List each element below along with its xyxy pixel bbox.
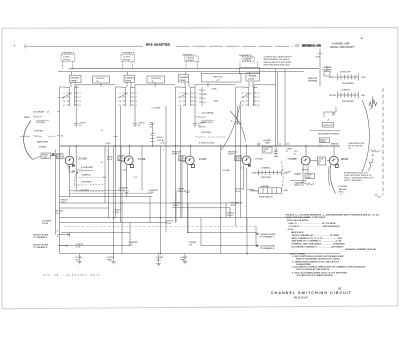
svg-text:+ CLA: + CLA	[284, 143, 290, 146]
svg-text:CONTROL: CONTROL	[341, 89, 351, 91]
label relay plus	[236, 201, 243, 204]
tube V2 lower wires	[121, 146, 129, 197]
svg-text:LABEL THE FOLLOWING CONDITI: LABEL THE FOLLOWING CONDITIONS	[286, 216, 326, 219]
svg-text:A TRACKER: A TRACKER	[81, 166, 93, 169]
svg-text:+CAP: +CAP	[105, 142, 111, 145]
svg-text:PULSE: PULSE	[42, 223, 49, 225]
svg-text:PRIME: PRIME	[71, 80, 78, 82]
svg-text:+V 2: +V 2	[295, 184, 299, 186]
label counter C4.32B	[119, 187, 129, 191]
svg-text:+1%: +1%	[61, 98, 65, 100]
bottom dashed bus y226	[64, 225, 257, 227]
svg-text:3-4: 3-4	[179, 100, 182, 103]
svg-text:BUS ADAPTER: BUS ADAPTER	[146, 43, 170, 47]
svg-text:RELAY: RELAY	[157, 136, 164, 139]
clamp tube junction labels	[263, 139, 272, 144]
module 1 inner rails	[76, 130, 142, 254]
svg-text:FIG. 48 — ELECTRIC UNIT: FIG. 48 — ELECTRIC UNIT	[43, 273, 101, 277]
tube V3 channel C	[186, 146, 195, 165]
module 4 left boundary wires	[236, 87, 245, 226]
input cable curve	[24, 121, 33, 160]
bottom bus y196	[60, 196, 153, 198]
svg-text:RAM: RAM	[214, 100, 219, 103]
svg-text:2-2: 2-2	[134, 97, 137, 99]
svg-text:+40 V: +40 V	[156, 259, 162, 262]
tube V1 cathode capacitor	[67, 165, 75, 172]
bottom bus y208	[60, 207, 231, 209]
svg-text:+V B+: +V B+	[160, 143, 166, 145]
svg-text:CHOPPER: CHOPPER	[201, 132, 211, 134]
svg-text:CLEAR: CLEAR	[248, 78, 255, 81]
main horizontal bus	[60, 145, 340, 146]
channel C relay dashed box	[182, 53, 199, 68]
cathode resistor drop 2	[107, 254, 116, 264]
svg-text:AND PRESSING THE JACKS: AND PRESSING THE JACKS	[264, 58, 290, 61]
tube socket pins module 1	[63, 87, 81, 107]
clamp feed component right of tabulator	[274, 143, 293, 157]
svg-text:COIL B+: COIL B+	[157, 140, 165, 142]
cathode resistor drop 1	[75, 254, 83, 264]
channel D upper junction box	[240, 68, 260, 74]
top bus line left segment	[25, 44, 143, 49]
svg-text:RAM: RAM	[203, 93, 207, 96]
svg-text:ACCURATE: ACCURATE	[33, 111, 45, 114]
left signal input cluster	[20, 111, 56, 149]
center coupling network C-R	[148, 123, 165, 146]
svg-text:CHANNEL D: CHANNEL D	[239, 54, 252, 57]
svg-text:1-2: 1-2	[78, 93, 81, 95]
svg-text:DA.63B: DA.63B	[79, 157, 88, 160]
spring squiggle	[369, 97, 377, 111]
svg-text:3-2: 3-2	[257, 101, 260, 103]
B+ tap label 2 left rail	[47, 112, 60, 114]
tube V3 lower wires	[182, 158, 190, 232]
svg-text:4-1: 4-1	[242, 104, 245, 107]
svg-text:AMPLIFIER: AMPLIFIER	[37, 141, 48, 144]
label crush drum	[178, 188, 186, 192]
svg-text:ROTOR: ROTOR	[329, 95, 336, 97]
left auxiliary rail	[56, 150, 60, 238]
chan selector switch note	[348, 142, 365, 150]
channel clutch label lower left right-section	[294, 181, 304, 186]
bottom verticals module1	[70, 166, 131, 254]
svg-text:WITH CALCULATED+: WITH CALCULATED+	[287, 219, 310, 222]
svg-text:CH. B: CH. B	[55, 213, 61, 215]
svg-text:ACCURATE+: ACCURATE+	[202, 112, 215, 115]
svg-text:T-9: T-9	[240, 168, 243, 170]
svg-text:+CAP’T: +CAP’T	[148, 123, 156, 126]
module 4 right long rail	[284, 69, 286, 146]
title subcode	[294, 296, 309, 299]
after-march note block	[344, 171, 374, 182]
telephone switch strip	[329, 89, 365, 103]
grid bias box tube 1	[57, 154, 64, 160]
svg-text:DRUM W: DRUM W	[178, 191, 186, 193]
svg-text:SAMPLE DY: SAMPLE DY	[201, 121, 213, 124]
svg-text:CLUTCH: CLUTCH	[96, 78, 104, 80]
svg-text:CLIPPER: CLIPPER	[34, 131, 43, 133]
svg-text:DITTO +: DITTO +	[199, 127, 208, 129]
cathode resistor drop 4	[180, 254, 188, 264]
svg-text:CHANNEL: CHANNEL	[70, 76, 80, 79]
svg-text:4-2: 4-2	[257, 104, 260, 107]
svg-text:POWERS+ ONLY AVAILABLE ....: POWERS+ ONLY AVAILABLE .................…	[292, 242, 346, 245]
module 2 left boundary wires	[114, 87, 122, 223]
V6 output cable curve	[328, 165, 335, 194]
channel clear box 4	[246, 73, 260, 81]
svg-text:+CAP B: +CAP B	[79, 121, 87, 124]
svg-text:BYPASS: BYPASS	[243, 59, 251, 62]
top bus line right segment	[176, 45, 293, 47]
svg-text:TRIPLE CHANNEL AT .........: TRIPLE CHANNEL AT ......................…	[292, 234, 340, 237]
svg-text:C-1 R: C-1 R	[76, 246, 81, 248]
svg-text:4-1: 4-1	[63, 104, 66, 107]
wire box2 to pins	[127, 72, 155, 87]
bottom bus y193	[70, 192, 152, 194]
svg-text:TERM: TERM	[320, 142, 325, 144]
svg-text:ANNOUNCE: ANNOUNCE	[291, 231, 304, 234]
clamp tap label	[151, 107, 161, 110]
svg-text:1-1: 1-1	[242, 93, 245, 95]
sheet number 28	[338, 286, 341, 290]
svg-text:TUBE: TUBE	[265, 143, 271, 145]
tabulator box on bus	[257, 143, 272, 153]
svg-text:COUNT: COUNT	[123, 57, 131, 59]
svg-text:C2.32: C2.32	[149, 192, 154, 194]
label channel tag	[173, 202, 183, 207]
svg-text:+1 CLAMP: +1 CLAMP	[151, 107, 161, 110]
svg-text:TAG W: TAG W	[173, 204, 179, 207]
selector feed resistor	[370, 150, 381, 157]
coupling capacitor module 2	[133, 85, 176, 127]
label clutch RL3x	[235, 188, 243, 192]
svg-text:+CAP B: +CAP B	[138, 121, 146, 124]
svg-text:UNIT+ POWER: UNIT+ POWER	[290, 253, 305, 255]
svg-text:CHANNEL: CHANNEL	[248, 75, 258, 78]
svg-text:+SW: +SW	[284, 190, 288, 192]
svg-text:3-4: 3-4	[242, 100, 245, 103]
channel D relay dashed box	[239, 54, 258, 68]
svg-text:B+: B+	[318, 163, 320, 165]
svg-text:COUNT: COUNT	[63, 57, 71, 59]
svg-text:TO CHANNEL A: TO CHANNEL A	[33, 236, 48, 239]
svg-text:SPEED B: SPEED B	[172, 153, 180, 155]
tube V4 lower wires	[240, 165, 247, 232]
svg-text:TERMINAL: TERMINAL	[308, 80, 319, 83]
label counter C2.32	[149, 190, 159, 194]
tube socket pins module 3	[179, 87, 197, 107]
svg-text:DE31B: DE31B	[331, 143, 338, 145]
svg-text:3-4: 3-4	[63, 100, 66, 103]
svg-text:SIGNAL AMPLIFIER’T: SIGNAL AMPLIFIER’T	[330, 46, 355, 49]
svg-text:SWITCH: SWITCH	[329, 77, 337, 79]
inset dashed arc	[281, 162, 283, 191]
svg-text:2-2: 2-2	[257, 97, 260, 99]
label rotor RL W	[231, 203, 238, 207]
svg-text:FOR LOCATION AT THE SWITCH: FOR LOCATION AT THE SWITCH	[296, 268, 330, 271]
svg-text:CH. TR: CH. TR	[227, 215, 234, 217]
svg-text:SIGNAL: SIGNAL	[39, 146, 47, 149]
svg-text:3-4: 3-4	[119, 100, 122, 103]
svg-text:1-1: 1-1	[119, 93, 122, 95]
tube V1 channel A	[63, 146, 74, 165]
svg-text:CONT: CONT	[42, 157, 48, 159]
svg-text:SWITCHED AMPLIFIER JACK: SWITCHED AMPLIFIER JACK	[264, 63, 291, 66]
channel amp signal amplifier label	[330, 43, 355, 49]
svg-text:UNLESS +++ VOLTAGE READINGS: UNLESS +++ VOLTAGE READINGS +++ ARE MEAS…	[286, 213, 380, 216]
tube V3 cathode square	[191, 165, 194, 168]
label clutch ch tr	[227, 212, 235, 216]
svg-text:BYPASS: BYPASS	[63, 58, 71, 61]
junction dots bottom	[113, 202, 248, 254]
svg-text:CH.342: CH.342	[255, 158, 263, 161]
tube V5 selector A	[301, 146, 310, 165]
svg-text:+SW: +SW	[361, 95, 365, 97]
svg-text:4 BUS SWITCH: 4 BUS SWITCH	[259, 195, 273, 198]
svg-text:1.5 V: 1.5 V	[133, 177, 138, 179]
svg-text:+ VOLT: + VOLT	[286, 229, 294, 231]
svg-text:CHANNEL CURRENT SPECIAL: CHANNEL CURRENT SPECIAL	[345, 248, 377, 251]
svg-text:+SWITCH: +SWITCH	[252, 173, 261, 175]
label counter C2R	[129, 242, 139, 246]
tube V4 cathode square	[248, 164, 251, 167]
channel prime box 2	[124, 75, 135, 82]
svg-text:CHANNEL: CHANNEL	[260, 185, 270, 188]
svg-text:+VAL,-C+ ....................: +VAL,-C+ ...............................…	[288, 222, 336, 225]
svg-text:PRIME: PRIME	[125, 80, 132, 82]
svg-text:A POS-OFF: A POS-OFF	[340, 70, 351, 73]
bus tap labels	[105, 142, 166, 152]
svg-text:CHANNEL A: CHANNEL A	[62, 51, 75, 54]
wire box1 to pins	[71, 72, 101, 87]
telegraph control label	[310, 131, 340, 136]
sweep curve from channel D to tube 4	[221, 101, 246, 150]
right column rail from bus adapter	[316, 49, 322, 66]
switch term box	[319, 138, 330, 144]
svg-text:F-14 B, ET-4 DE+: F-14 B, ET-4 DE+	[199, 141, 216, 144]
upper bus wire 2	[58, 71, 304, 73]
switch wiper diagonals	[63, 93, 251, 98]
right dashed boundary	[382, 88, 384, 195]
svg-text:4-2: 4-2	[194, 104, 197, 107]
svg-text:RELAY B+: RELAY B+	[214, 76, 224, 79]
svg-text:3-2: 3-2	[78, 101, 81, 103]
channel A relay dashed box	[61, 51, 75, 68]
svg-text:RELAY: RELAY	[235, 156, 241, 159]
svg-text:1-1: 1-1	[63, 93, 66, 95]
svg-text:3-4: 3-4	[203, 97, 206, 100]
inset side labels	[286, 171, 300, 186]
svg-text:ADJUST: ADJUST	[228, 152, 236, 155]
tube V2 channel B	[125, 146, 134, 165]
channel prime box 3	[179, 75, 190, 83]
label rotor ch B	[55, 210, 63, 214]
small junction box right column	[320, 65, 330, 86]
tube socket pins module 4	[242, 87, 260, 107]
signal pulses channel B arrow	[33, 243, 68, 249]
svg-text:1-2: 1-2	[134, 93, 137, 95]
svg-text:TO CHANNEL D: TO CHANNEL D	[260, 247, 275, 250]
svg-text:CHANNEL: CHANNEL	[179, 76, 189, 79]
svg-text:1.6.34Z+: 1.6.34Z+	[223, 169, 232, 172]
svg-text:TELEGRAPH CONTROL: TELEGRAPH CONTROL	[318, 132, 340, 135]
svg-text:+CL W: +CL W	[166, 223, 172, 225]
module 3 left boundary wires	[176, 87, 182, 223]
svg-text:SWITCH CENTERED LEVER AT I: SWITCH CENTERED LEVER AT ITS CABLE	[296, 258, 340, 261]
svg-text:SAMPLE: SAMPLE	[82, 173, 91, 176]
svg-text:CHANNEL C: CHANNEL C	[182, 53, 195, 56]
channel prime box 1	[70, 75, 82, 82]
svg-text:AND WIRE OF 1 CHANNEL’S .: AND WIRE OF 1 CHANNEL’S ................…	[292, 240, 343, 243]
wire box4 to pins	[249, 72, 253, 87]
bottom bus y232	[61, 231, 256, 233]
junction wires right column	[324, 107, 336, 122]
right curved cable	[362, 100, 369, 172]
svg-text:+E+: +E+	[263, 151, 266, 153]
svg-text:1-1: 1-1	[179, 93, 182, 95]
svg-text:TELEPHONE: TELEPHONE	[342, 101, 354, 103]
relay B+ wide box	[202, 74, 242, 83]
1.5V tap label	[133, 177, 138, 179]
svg-text:SUPPORT: SUPPORT	[324, 125, 334, 127]
module 4 bus switch inset box	[251, 185, 288, 199]
svg-text:CHOPPER+: CHOPPER+	[81, 181, 93, 183]
signal pulses channel A arrow	[33, 232, 70, 239]
svg-text:ADAPTER: ADAPTER	[323, 68, 333, 71]
paper clip mark	[375, 195, 381, 198]
svg-text:TO CHANNEL C: TO CHANNEL C	[260, 236, 275, 239]
label clutch C-1R	[76, 244, 84, 248]
note pointer squiggle	[368, 159, 373, 172]
tube V4 channel D	[242, 146, 251, 165]
svg-text:CHANNEL: CHANNEL	[261, 167, 271, 170]
svg-text:TELEGRAPH: TELEGRAPH	[342, 82, 354, 85]
bracket terminal label	[308, 77, 319, 83]
svg-text:PRIME: PRIME	[180, 80, 187, 82]
module 1 left boundary wire	[60, 87, 66, 254]
title channel switching circuit	[271, 291, 352, 295]
svg-text:SWITCH ARE NOT THE LEVER: SWITCH ARE NOT THE LEVER	[264, 61, 292, 64]
bottom bus y217	[60, 217, 311, 219]
svg-text:B+: B+	[286, 151, 288, 153]
channel switch box between V5 V6	[310, 157, 325, 165]
V5 bias box	[305, 173, 315, 179]
tube socket pins module 3 right column	[199, 87, 219, 106]
bottom bus y253	[60, 253, 341, 255]
coupling capacitor module 3	[193, 85, 236, 127]
signal pulses channel C arrow	[256, 233, 276, 239]
support box	[323, 122, 334, 127]
label chlamp	[189, 241, 198, 246]
tube V6 cathode square	[335, 165, 338, 168]
svg-text:TO +V: TO +V	[294, 174, 300, 176]
svg-text:A GROUP WILL MORE SWITCH: A GROUP WILL MORE SWITCH	[264, 56, 293, 59]
label clutch C4W	[114, 209, 122, 213]
tube V2 cathode square	[130, 165, 133, 168]
svg-text:BYPASS: BYPASS	[186, 59, 194, 62]
right-section lower caps	[290, 181, 315, 186]
center signal label cluster	[196, 112, 226, 145]
svg-text:1-2: 1-2	[257, 93, 260, 95]
svg-text:DE394: DE394	[341, 158, 349, 161]
module 4 right rails	[276, 69, 278, 146]
bottom bus y222	[60, 222, 168, 224]
svg-text:CHANNEL SWITCHING CIRCUIT: CHANNEL SWITCHING CIRCUIT	[271, 291, 352, 295]
output destination labels	[337, 186, 348, 196]
svg-text:CHMDA: CHMDA	[248, 188, 256, 191]
upper bus wire 1	[69, 68, 319, 70]
svg-text:WITH CHANNELS TA, T1, E TO .: WITH CHANNELS TA, T1, E TO .............…	[292, 237, 343, 240]
svg-text:C-4 W: C-4 W	[114, 211, 119, 214]
channel B relay dashed box	[121, 51, 135, 68]
svg-text:4-2: 4-2	[134, 104, 137, 107]
svg-text:4 BAR: 4 BAR	[306, 176, 312, 179]
label counter pulse	[42, 220, 52, 224]
label switch C12.32	[61, 200, 69, 204]
grid bias box tube 4	[228, 151, 242, 161]
svg-text:3-2: 3-2	[134, 101, 137, 103]
channel adapter label	[323, 66, 333, 72]
svg-text:AM 24-651-07: AM 24-651-07	[294, 296, 309, 299]
wire box3 to pins	[185, 72, 208, 87]
svg-text:V4.32C: V4.32C	[199, 158, 207, 161]
svg-text:+ SW: + SW	[361, 77, 366, 79]
microphone jack box	[33, 153, 57, 160]
svg-text:+LOCATION FOR TOWARD SHOWN: +LOCATION FOR TOWARD SHOWN	[296, 274, 333, 277]
svg-text:ADJ B: ADJ B	[107, 158, 113, 161]
clutch B+ box 2	[147, 76, 165, 83]
svg-text:+ SW: + SW	[286, 171, 291, 173]
bottom bus y245	[60, 245, 257, 247]
note beside channel D box	[264, 56, 293, 67]
bottom bus y190	[70, 190, 121, 192]
tube V6 selector B	[327, 146, 338, 165]
svg-text:3-2: 3-2	[194, 101, 197, 103]
module 1 switch detail rows	[72, 166, 106, 192]
svg-text:BEYOND B+ +7%: BEYOND B+ +7%	[302, 46, 321, 48]
svg-text:RELAY+: RELAY+	[236, 201, 243, 204]
svg-text:RL W: RL W	[231, 205, 236, 207]
B+ tap label 3 left rail	[58, 136, 64, 138]
svg-text:+w B: +w B	[122, 170, 127, 172]
svg-text:1-2: 1-2	[194, 93, 197, 95]
B+ tap label left rail	[58, 98, 65, 100]
svg-text:+V2 SUPLY ....................: +V2 SUPLY ..............................…	[288, 225, 340, 228]
tube V1 cathode square	[72, 164, 75, 167]
grid bias box tube 3	[172, 151, 185, 161]
figure caption	[43, 273, 101, 277]
module 4 channel switches inset strip	[252, 167, 288, 179]
svg-text:SUPPLY ARE AVAIL.+: SUPPLY ARE AVAIL.+	[344, 179, 363, 182]
signal pulses channel D arrow	[256, 245, 275, 250]
label clutch +CL W	[166, 220, 174, 224]
svg-text:2-2: 2-2	[194, 97, 197, 99]
tube socket pins module 2	[119, 87, 137, 107]
svg-text:4-2: 4-2	[78, 104, 81, 107]
V5 lower wires and divider	[302, 165, 308, 182]
svg-text:CLUTCH B: CLUTCH B	[151, 78, 161, 80]
svg-text:+CBM+: +CBM+	[211, 89, 217, 91]
svg-text:4-1: 4-1	[203, 89, 206, 92]
svg-text:CHANNEL: CHANNEL	[125, 76, 135, 79]
svg-text:WAVE: WAVE	[24, 116, 30, 119]
svg-text:C12.32: C12.32	[61, 202, 67, 204]
svg-text:C2 R: C2 R	[129, 244, 134, 246]
svg-text:HIGH: HIGH	[316, 57, 321, 59]
bottom verticals module4	[221, 146, 256, 254]
svg-text:CLIPPER: CLIPPER	[36, 122, 45, 124]
cathode resistor drop 3	[156, 254, 164, 266]
